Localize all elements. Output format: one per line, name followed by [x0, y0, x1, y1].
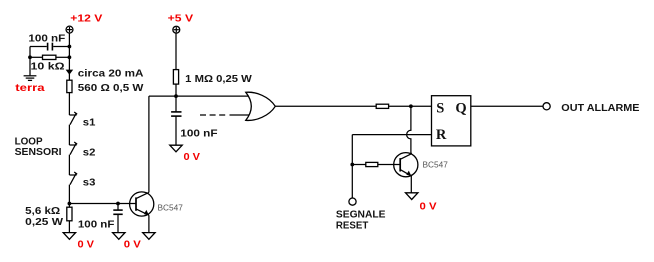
ground 0V (below 5,6k) [63, 233, 75, 240]
svg-text:+5 V: +5 V [168, 13, 194, 24]
svg-text:560 Ω 0,5 W: 560 Ω 0,5 W [78, 83, 144, 94]
ground 0V (below cap) [113, 233, 125, 240]
transistor Q1 BC547 [130, 192, 154, 216]
resistor 1 MOhm 0,25 W [173, 70, 178, 85]
dashed input wire to OR gate [200, 114, 249, 116]
wire: node to OR gate input A [176, 95, 251, 97]
wire: collector to node under 1M [149, 95, 176, 97]
svg-text:0 V: 0 V [420, 201, 437, 212]
ground 0V (below Q1) [143, 233, 155, 240]
node: resistor to rail [68, 55, 72, 59]
svg-text:+12 V: +12 V [70, 13, 102, 24]
capacitor 100 nF (middle) [171, 112, 181, 145]
capacitor 100 nF (bottom) [113, 204, 122, 233]
resistor 10 kOhm [30, 55, 69, 59]
svg-text:100 nF: 100 nF [78, 219, 115, 230]
LOOP SENSORI label [15, 137, 62, 158]
capacitor C 100 nF (top-left) [30, 43, 69, 51]
svg-text:S: S [436, 101, 444, 117]
svg-text:R: R [436, 127, 447, 143]
svg-text:RESET: RESET [336, 220, 369, 231]
svg-text:0 V: 0 V [124, 239, 141, 250]
wire: OR output [275, 105, 376, 107]
svg-text:BC547: BC547 [423, 160, 449, 170]
wire: R input line [352, 134, 431, 136]
wire: resistor to FF S input [389, 105, 432, 107]
node: under 1M [174, 94, 178, 98]
wire: node down to cap [175, 96, 177, 112]
svg-text:10 kΩ: 10 kΩ [31, 61, 65, 72]
SEGNALE RESET label [336, 210, 386, 232]
svg-text:0,25 W: 0,25 W [25, 217, 63, 228]
flip-flop U2 [432, 96, 471, 146]
wire: base line to Q1 [69, 203, 136, 205]
node: cap to rail [68, 45, 72, 49]
svg-text:OUT ALLARME: OUT ALLARME [561, 103, 639, 114]
series resistor (OR to FF) [376, 104, 388, 108]
svg-text:s2: s2 [83, 148, 96, 159]
svg-text:BC547: BC547 [158, 202, 184, 212]
switch s1 [69, 112, 77, 125]
terminal +12V [66, 26, 73, 33]
wire: s3 down to base node [68, 185, 70, 204]
wire: +5V terminal down to 1M [175, 33, 177, 70]
current arrow circa 20 mA [66, 70, 74, 75]
wire: node down with hop over R line [407, 106, 411, 153]
OR gate U1 [246, 92, 275, 120]
switch s3 [69, 172, 77, 185]
wire: Q1 emitter to ground [148, 215, 150, 232]
resistor 560 Ohm 0,5 W [67, 80, 72, 92]
svg-text:circa 20 mA: circa 20 mA [78, 68, 144, 79]
svg-text:100 nF: 100 nF [180, 129, 217, 140]
terminal +5V [173, 26, 180, 33]
node: S input junction [409, 104, 413, 108]
svg-text:SENSORI: SENSORI [15, 147, 62, 158]
wire: Q2 emitter down [410, 176, 412, 193]
svg-text:0 V: 0 V [78, 239, 95, 250]
wire: 1M to node [175, 84, 177, 96]
wire: left vertical to ground [29, 47, 31, 76]
ground 0V (middle) [170, 145, 182, 152]
terminal SEGNALE RESET [349, 198, 356, 205]
wire: rail down to 560 resistor [68, 57, 70, 80]
wire: right rail between cap node and resistor node [68, 47, 70, 58]
transistor Q2 BC547 [394, 153, 418, 177]
resistor 5,6 kOhm 0,25 W [67, 204, 72, 233]
wire: Q2 collector up to hop [410, 153, 412, 154]
node: loop bottom junction [68, 202, 72, 206]
base resistor (Q2) [352, 162, 400, 166]
switch s2 [69, 142, 77, 155]
ground (terra) [24, 76, 37, 81]
svg-text:Q: Q [455, 101, 466, 117]
wire: s2 to s3 [68, 155, 70, 175]
wire: s1 to s2 [68, 125, 70, 145]
wire: 560 resistor to switch s1 [68, 93, 70, 115]
wire: reset vertical [351, 135, 353, 198]
wire: Q output [471, 105, 543, 107]
wire: Q1 collector up [148, 96, 150, 192]
node: left junction [28, 55, 32, 59]
svg-text:5,6 kΩ: 5,6 kΩ [25, 206, 60, 217]
node: cap branch on base line [116, 202, 120, 206]
terminal OUT [543, 103, 550, 110]
svg-text:terra: terra [15, 83, 45, 94]
svg-text:0 V: 0 V [184, 152, 201, 163]
node: reset to base resistor [350, 163, 354, 167]
ground 0V (below Q2) [406, 193, 418, 200]
svg-text:1 MΩ 0,25 W: 1 MΩ 0,25 W [185, 74, 252, 85]
svg-text:s3: s3 [83, 178, 96, 189]
wire: +12V terminal down to cap node [68, 33, 70, 47]
svg-text:SEGNALE: SEGNALE [336, 210, 386, 221]
svg-text:s1: s1 [83, 118, 96, 129]
